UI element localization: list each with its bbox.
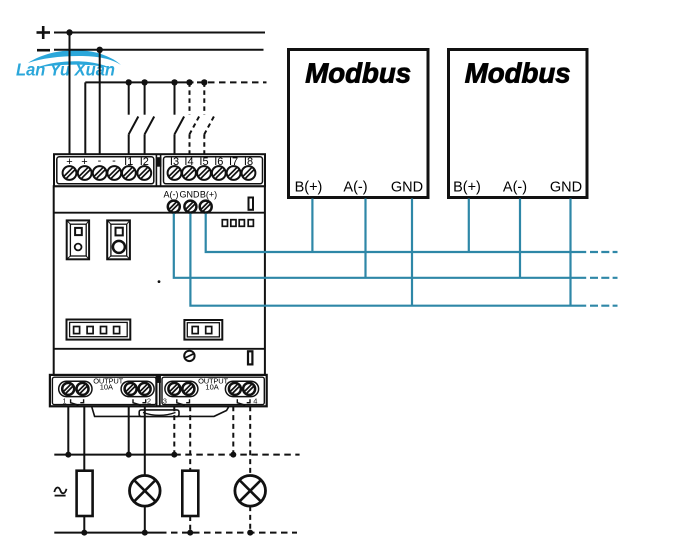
screw terminal I6 — [212, 166, 226, 180]
LED squares row — [222, 220, 253, 227]
junction dot R1 neutral — [81, 530, 87, 536]
screw terminal - — [93, 166, 107, 180]
wire L2 to neutral dashed — [249, 506, 251, 532]
screw terminal I4 — [182, 166, 196, 180]
wire A(-) from PLC — [174, 214, 586, 278]
screw terminal I2 — [137, 166, 151, 180]
output group box left — [52, 377, 156, 404]
wire modbus2 B(+) — [468, 199, 470, 253]
wire modbus1 A(-) — [364, 199, 366, 278]
wire out3a down dashed — [173, 406, 175, 454]
screw terminal out1b — [77, 383, 89, 395]
AC neutral bus dashed — [160, 532, 297, 534]
AC line bus dashed — [174, 454, 299, 456]
svg-text:GND: GND — [180, 190, 201, 200]
wire second + terminal riser — [84, 82, 86, 156]
screw terminal out2a — [125, 383, 137, 395]
button B2 — [107, 220, 130, 259]
junction dot R2 neutral — [187, 530, 193, 536]
wire GND from PLC — [190, 214, 586, 306]
strip divider — [156, 154, 160, 186]
display block left — [67, 320, 131, 340]
terminal labels row — [66, 155, 253, 168]
svg-text:B(+): B(+) — [453, 180, 481, 196]
switch S5 to I5 dashed — [204, 82, 214, 156]
output terminal strip — [50, 375, 267, 406]
screw terminal out4a — [229, 383, 241, 395]
wire R1 to neutral — [83, 516, 85, 533]
junction dot out2a — [126, 452, 132, 458]
slot upper — [249, 198, 254, 210]
screw terminal out2b — [139, 383, 151, 395]
svg-text:1: 1 — [62, 397, 66, 406]
switch S4 to I4 dashed — [190, 82, 200, 156]
wire plus rail to terminal + — [69, 33, 71, 157]
Modbus box 2 — [449, 50, 588, 198]
screw terminal B(+) — [200, 201, 212, 213]
svg-text:A(-): A(-) — [343, 180, 367, 196]
plus rail — [54, 32, 265, 34]
body divider line upper — [54, 212, 265, 214]
output group box right — [162, 377, 264, 404]
input supply rail dashed — [197, 81, 267, 83]
junction dot L2 neutral — [247, 530, 253, 536]
AC neutral bus solid — [54, 532, 160, 534]
screw terminal - (2) — [107, 166, 121, 180]
svg-text:4: 4 — [253, 397, 257, 406]
wire B(+) from PLC — [206, 214, 587, 253]
wire GND bus dashed continuation — [590, 305, 618, 307]
button B1 — [67, 220, 89, 259]
junction dot I5 — [201, 79, 207, 85]
watermark logo swoosh — [28, 50, 121, 68]
relay 2 stadium — [121, 381, 154, 396]
input terminal group box right — [164, 157, 263, 184]
input terminal strip — [54, 154, 265, 186]
relay 3 stadium — [165, 381, 198, 396]
relay contact mark 1 — [71, 399, 84, 405]
relay 4 stadium — [225, 381, 258, 396]
RS485 port labels A(-) GND B(+) — [164, 190, 218, 200]
minus rail — [54, 49, 264, 51]
screw terminal + — [63, 166, 77, 180]
junction dot out3a — [171, 452, 177, 458]
screw terminal I7 — [227, 166, 241, 180]
wire out2b down — [144, 406, 146, 475]
junction dot I3 — [171, 79, 177, 85]
display block right — [184, 320, 222, 340]
PLC module body — [54, 186, 265, 375]
wire A(-) bus dashed continuation — [590, 277, 618, 279]
resistor load R1 — [77, 471, 93, 516]
switch S3 to I3 — [175, 82, 185, 156]
junction dot on minus rail — [97, 47, 103, 53]
wire out1b down — [83, 406, 85, 470]
svg-text:GND: GND — [550, 180, 582, 196]
input terminal group box left — [57, 157, 154, 184]
wire out2a down — [128, 406, 130, 454]
input supply rail solid — [85, 81, 193, 83]
AC line bus solid — [54, 454, 174, 456]
relay 1 stadium — [59, 381, 92, 396]
screw terminal I5 — [197, 166, 211, 180]
switch S2 to I2 — [145, 82, 155, 156]
wire minus rail to terminal - — [99, 50, 101, 156]
svg-text:A(-): A(-) — [164, 190, 179, 200]
junction dot I1 — [126, 79, 132, 85]
DIN rail clip — [92, 406, 229, 416]
screw terminal A(-) — [168, 201, 180, 213]
wire out4b down dashed — [249, 406, 251, 475]
screw terminal out4b — [243, 383, 255, 395]
junction dot L1 neutral — [142, 530, 148, 536]
junction dot on plus rail — [66, 29, 72, 35]
junction dot I4 — [186, 79, 192, 85]
relay contact mark 4 — [237, 399, 250, 405]
wire modbus1 GND — [411, 199, 413, 306]
wire out4a down dashed — [232, 406, 234, 454]
junction dot out1a — [65, 452, 71, 458]
svg-text:GND: GND — [391, 180, 423, 196]
screw terminal out3a — [168, 383, 180, 395]
output strip divider — [157, 375, 160, 406]
lamp L1 — [130, 476, 161, 507]
svg-text:B(+): B(+) — [295, 180, 323, 196]
junction dot I2 — [141, 79, 147, 85]
AC source symbol — [54, 488, 66, 496]
svg-text:Modbus: Modbus — [465, 58, 571, 89]
svg-text:3: 3 — [163, 397, 167, 406]
screw terminal out3b — [182, 383, 194, 395]
plus symbol — [37, 26, 51, 39]
svg-text:10A: 10A — [100, 382, 113, 391]
wire R2 to neutral dashed — [189, 516, 191, 533]
screw terminal I3 — [168, 166, 182, 180]
OUTPUT 10A label right — [198, 376, 228, 391]
OUTPUT 10A label left — [93, 376, 123, 391]
screw terminal + (2) — [78, 166, 92, 180]
svg-text:Modbus: Modbus — [305, 58, 411, 89]
switch S1 to I1 — [129, 82, 139, 156]
tiny dot — [158, 280, 161, 283]
slot lower — [248, 351, 252, 364]
svg-text:2: 2 — [147, 397, 151, 406]
wire out3b down dashed — [189, 406, 191, 470]
resistor load R2 — [182, 471, 198, 516]
screw terminal I1 — [122, 166, 136, 180]
wire modbus1 B(+) — [311, 199, 313, 253]
screw terminal GND — [184, 201, 196, 213]
body divider line lower — [54, 348, 265, 350]
svg-text:B(+): B(+) — [200, 190, 217, 200]
wire L1 to neutral — [144, 506, 146, 532]
Modbus box 1 — [289, 50, 429, 198]
screw terminal out1a — [62, 383, 74, 395]
screw terminal I8 — [242, 166, 256, 180]
wire B(+) bus dashed continuation — [590, 251, 618, 253]
lamp L2 — [235, 476, 266, 507]
minus symbol — [37, 49, 50, 52]
junction dot out4a — [230, 452, 236, 458]
wire modbus2 A(-) — [519, 199, 521, 278]
relay contact mark 2 — [133, 399, 146, 405]
svg-text:A(-): A(-) — [503, 180, 527, 196]
wire out1a down — [67, 406, 69, 454]
wire modbus2 GND — [569, 199, 571, 306]
svg-text:10A: 10A — [205, 382, 218, 391]
RS485 bus wiring teal — [174, 199, 618, 306]
relay contact mark 3 — [177, 399, 190, 405]
screw fastener — [184, 351, 194, 361]
